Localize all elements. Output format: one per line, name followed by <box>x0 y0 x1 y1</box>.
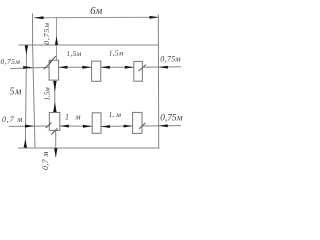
wire: room bottom wall with left extension <box>18 147 160 149</box>
node: arrow to left wall (bottom row) <box>25 125 34 128</box>
node: arrow at L4 right <box>60 125 69 128</box>
node: arrow at L5 left <box>83 125 92 128</box>
lamp L5 <box>92 113 101 134</box>
wire: top row dimension chain left segment <box>10 67 49 68</box>
node: arrow at L5 right <box>101 125 110 128</box>
lamp L4 <box>49 113 60 131</box>
svg-text:1,5м: 1,5м <box>109 48 124 57</box>
wire: vertical extension from 6m line through top wall to lamp L1 <box>56 17 58 60</box>
node: 5m bottom wedge arrow <box>24 139 27 148</box>
svg-text:6м: 6м <box>90 6 102 17</box>
svg-text:5м: 5м <box>10 87 23 98</box>
svg-text:0,7 м: 0,7 м <box>41 151 50 170</box>
svg-text:1 м: 1 м <box>65 113 83 122</box>
svg-text:0,7 м: 0,7 м <box>2 115 23 124</box>
wire: room top wall with left extension <box>19 44 159 46</box>
svg-text:0,75м: 0,75м <box>42 22 51 45</box>
node: wedge arrow above L4 <box>53 102 56 112</box>
lamp L6 <box>133 112 142 133</box>
node: arrow at L3 left <box>125 66 134 69</box>
node: 6m right arrow <box>150 16 159 19</box>
svg-text:0,75м: 0,75м <box>1 57 21 66</box>
node: 6m left arrow <box>34 16 44 19</box>
wire: vertical dim from L4 bottom through bottom wall <box>55 130 57 157</box>
wire: slash across L6 right edge and chain line <box>139 123 145 129</box>
lamp L3 <box>134 61 143 81</box>
svg-text:1, м: 1, м <box>109 110 122 119</box>
svg-text:1,5м: 1,5м <box>67 49 82 58</box>
wire: top row chain right segment through wall <box>142 66 181 68</box>
wire: dim segment L4-L5 <box>60 125 92 127</box>
wire: room right wall extended up to 6m dimension line <box>157 15 159 149</box>
wire: bottom row chain right segment through wall <box>142 125 181 127</box>
node: wedge arrow above top wall <box>55 36 58 45</box>
wire: room left wall extended up to 6m dimension line <box>33 13 36 148</box>
wire: bottom row chain left segment <box>9 125 49 127</box>
node: arrow to left wall <box>23 66 32 69</box>
svg-text:0,75м: 0,75м <box>160 54 181 63</box>
wire: 5m dimension line <box>25 45 26 148</box>
lamp L2 <box>92 61 101 81</box>
node: arrow at L1 right <box>59 66 68 69</box>
wire: 6m dimension line <box>34 16 159 18</box>
wire: dim segment L1-L2 <box>59 66 92 68</box>
node: arrow to right wall <box>159 66 168 69</box>
lamp L1 <box>49 60 59 80</box>
wire: vertical dim line between rows <box>54 80 56 112</box>
wire: dim segment L5-L6 <box>101 125 133 128</box>
svg-text:0,75м: 0,75м <box>160 114 182 124</box>
wire: slash across lamp L1 top edge <box>49 56 56 63</box>
wire: dim segment L2-L3 <box>101 66 134 68</box>
node: arrow to right wall (bottom row) <box>159 124 168 127</box>
wire: slash across L4 bottom edge <box>51 128 57 134</box>
node: arrow at L2 left <box>82 66 91 69</box>
node: arrow at L6 left <box>124 125 133 128</box>
svg-text:1,5м: 1,5м <box>44 87 52 101</box>
node: wedge arrow below bottom wall <box>54 148 57 157</box>
wire: slash across lamp L3 right edge and chain line <box>139 65 147 71</box>
node: arrow at L2 right <box>101 66 110 69</box>
node: 5m top wedge arrow <box>25 45 28 54</box>
node: wedge arrow below L1 <box>53 81 56 92</box>
wire: slash across L4 left edge and chain line <box>46 123 52 129</box>
wire: slash across lamp L1 left edge and chain line <box>44 61 52 69</box>
